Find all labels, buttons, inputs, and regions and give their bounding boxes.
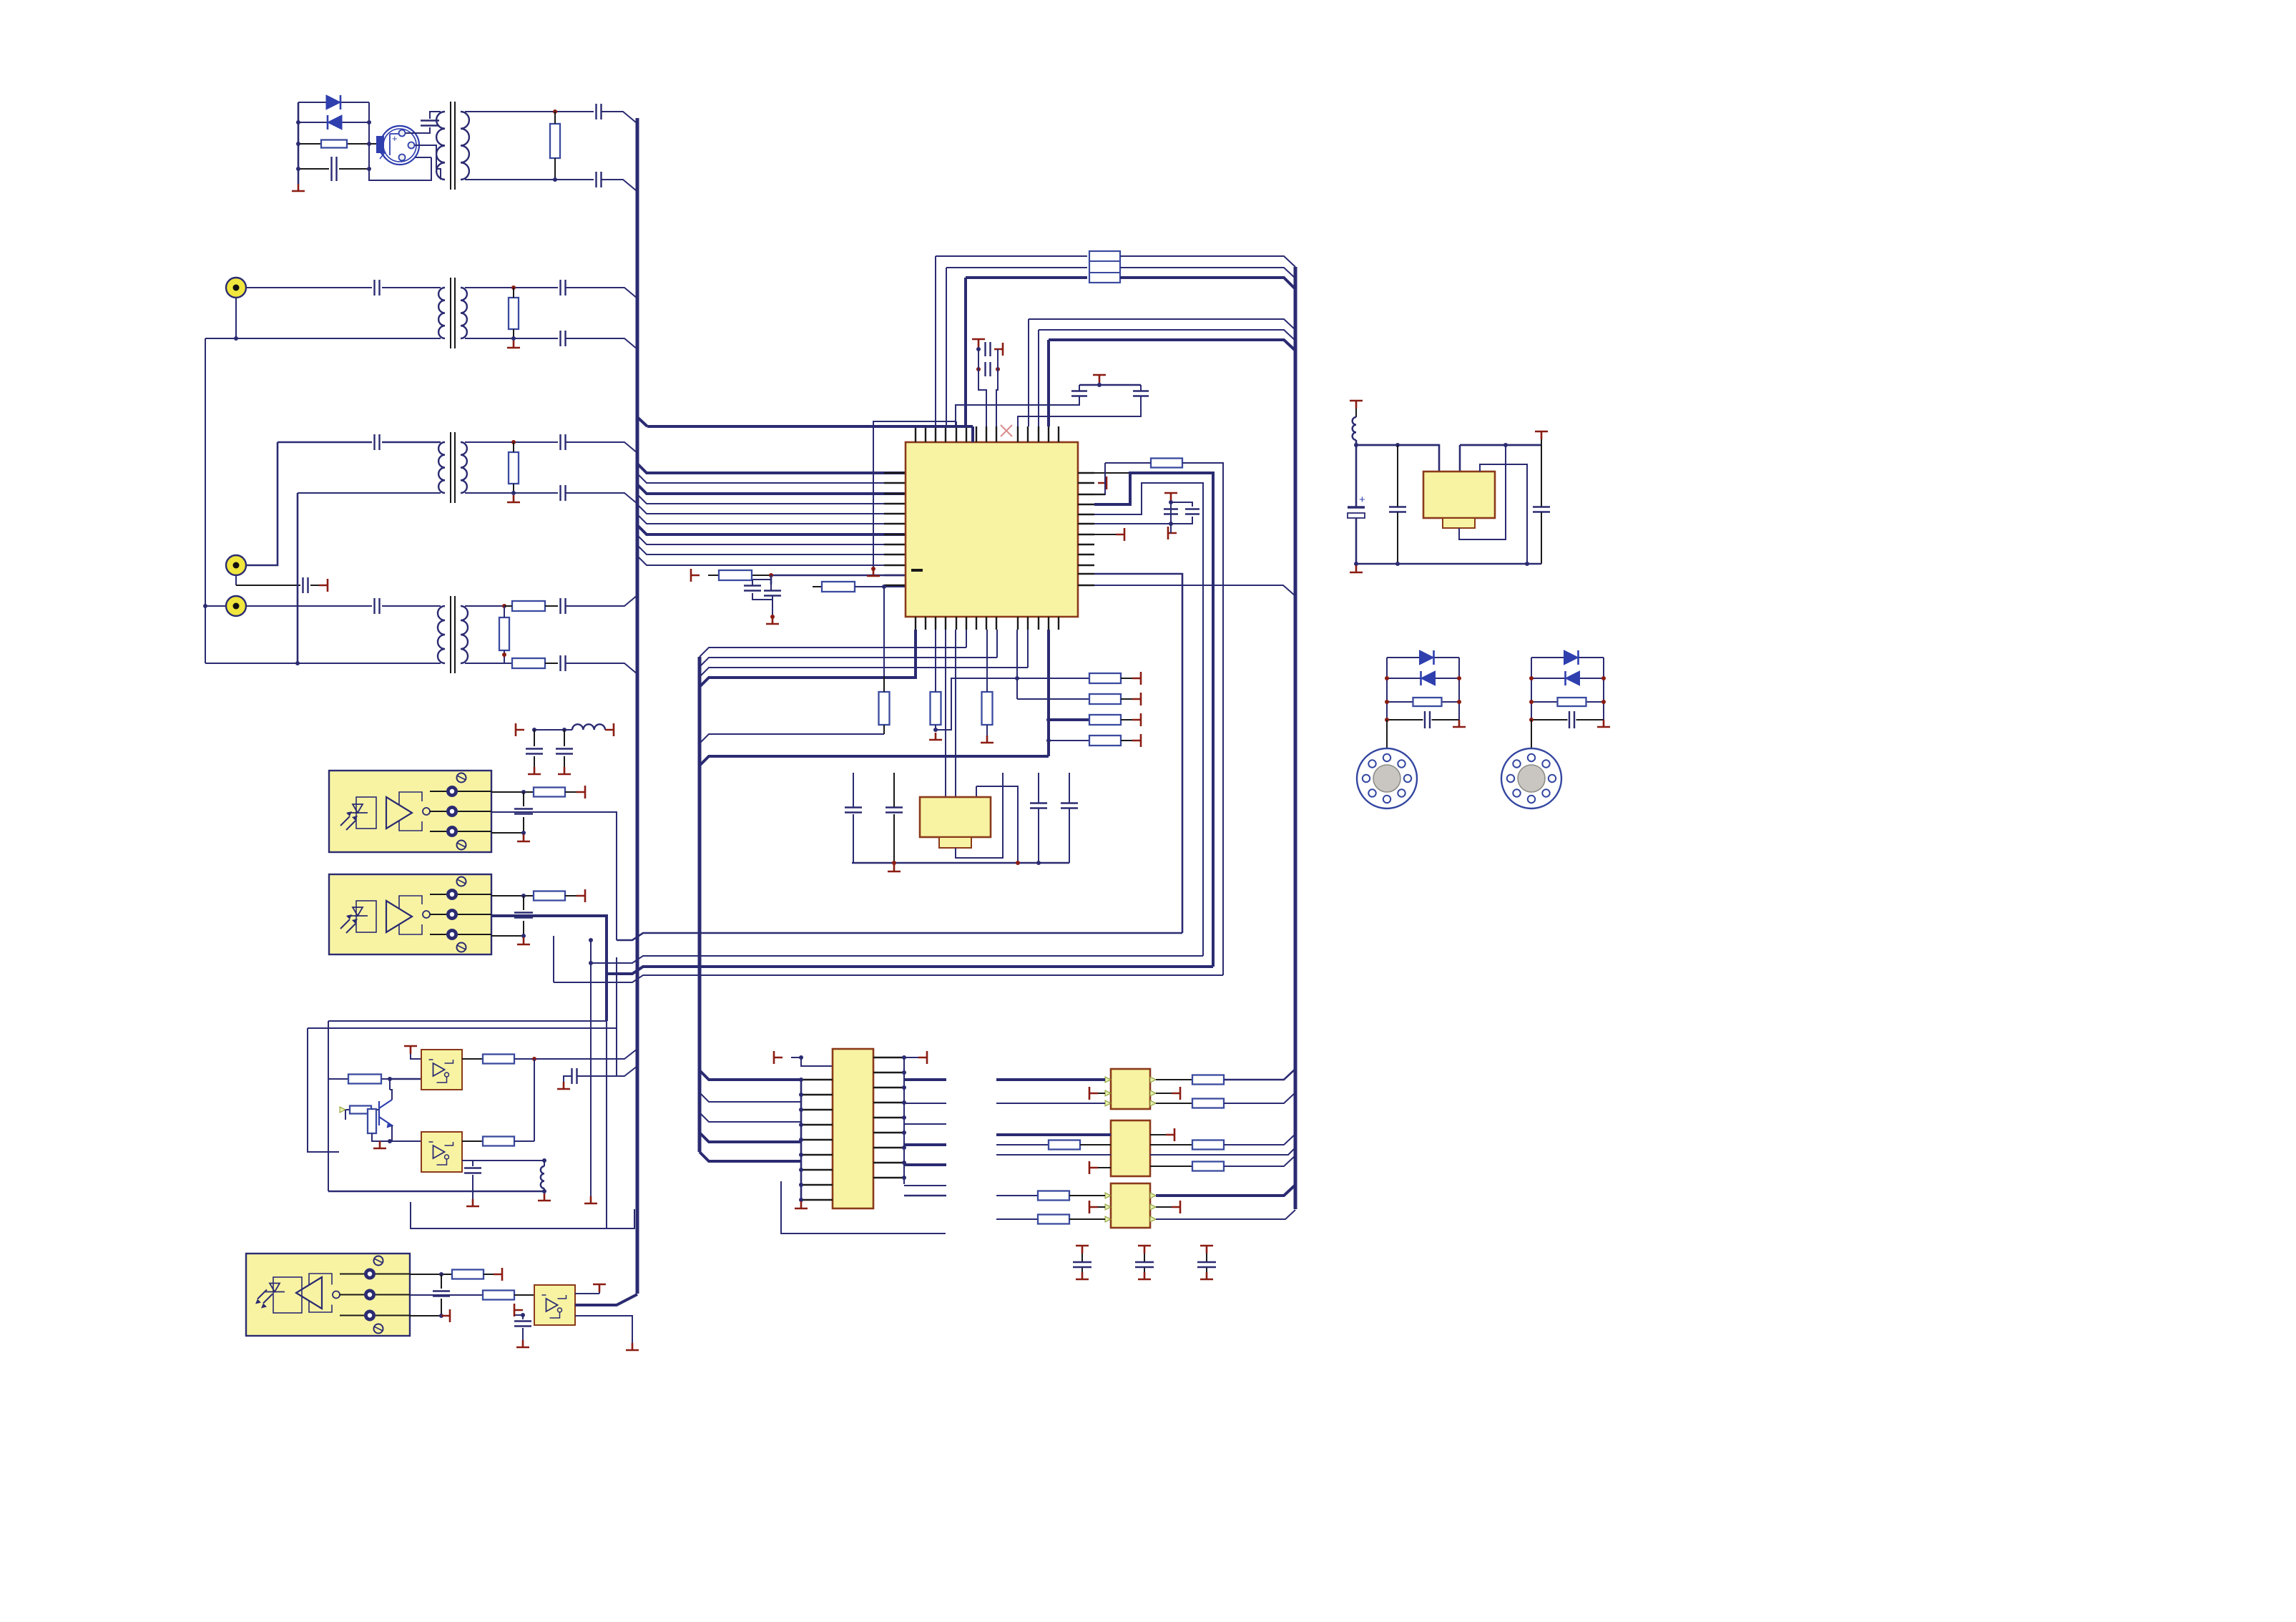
wire mid row 6 bbox=[1049, 340, 1295, 351]
wire top link bbox=[791, 1057, 833, 1066]
wire R11 wires bbox=[1105, 463, 1223, 975]
wire XLR left rail bbox=[298, 102, 300, 184]
node A3 bbox=[296, 167, 300, 171]
wire left drop rail bbox=[205, 338, 206, 663]
wire connector stem 2 bbox=[1531, 720, 1532, 748]
resistor R9 bbox=[822, 582, 855, 592]
wire bus row 704 bbox=[637, 494, 906, 504]
wire bus2 row 1026 bbox=[700, 734, 884, 743]
wire C31 right bbox=[577, 957, 617, 1076]
node M1 bbox=[439, 1272, 443, 1276]
power flag VT2 bbox=[918, 1051, 927, 1064]
node T1a bbox=[553, 109, 557, 114]
wire pin drop 1422 bbox=[1016, 630, 1018, 699]
ground GND5 bbox=[867, 569, 880, 576]
wire U8 input caps bbox=[514, 1315, 523, 1340]
wire vg stub bbox=[411, 1054, 421, 1059]
wire U9 left rail bbox=[800, 1080, 803, 1199]
capacitor C40 bbox=[1533, 507, 1550, 512]
pin marker bbox=[1105, 1193, 1111, 1198]
wire cap frame bbox=[752, 575, 772, 617]
capacitor C30 bbox=[514, 913, 533, 918]
wire RCA2 stem bbox=[235, 575, 237, 585]
wire R9 to IC bbox=[855, 586, 906, 587]
power flag VDD1 bbox=[691, 569, 700, 582]
wire mid row 5 vertical bbox=[1038, 330, 1039, 426]
ground GND6 bbox=[929, 733, 942, 740]
wire Q1 collector bbox=[390, 1079, 392, 1100]
wire res row 977 bbox=[1017, 698, 1089, 700]
node K4 bbox=[542, 1158, 546, 1163]
node B8 bbox=[502, 604, 506, 608]
node C2 bbox=[770, 615, 775, 619]
wire row D bbox=[554, 975, 1223, 982]
resistor R27 bbox=[1192, 1075, 1224, 1085]
wire C31 left gnd bbox=[564, 1076, 571, 1082]
resistor R25 bbox=[452, 1270, 484, 1279]
wire U4 cap drop bbox=[523, 896, 524, 936]
wire U6 out bbox=[462, 1140, 483, 1142]
wire U10 out3 bbox=[1156, 1103, 1192, 1104]
resistor R28 bbox=[1192, 1099, 1224, 1108]
wire R28 to bus bbox=[1224, 1093, 1295, 1103]
capacitor C34 bbox=[514, 1321, 531, 1327]
diode D4 bbox=[1421, 671, 1436, 685]
wire xtal link bbox=[1017, 416, 1019, 426]
connector J2 RCA bbox=[226, 278, 246, 298]
wire IC bottom pin stubs bbox=[915, 617, 916, 630]
capacitor C11 bbox=[561, 434, 566, 450]
pin marker bbox=[1150, 1077, 1156, 1083]
node H1 bbox=[933, 728, 938, 732]
capacitor C5 bbox=[375, 280, 380, 295]
wire R26 to U8 bbox=[514, 1294, 534, 1296]
node R0a bbox=[1385, 676, 1389, 680]
line driver U12 bbox=[1111, 1183, 1150, 1228]
transistor Q1 bbox=[379, 1100, 392, 1127]
capacitor C24 bbox=[885, 808, 903, 813]
wire branch1 row3 bbox=[1387, 701, 1459, 703]
node H3 bbox=[1046, 718, 1051, 722]
wire U4 out1 bbox=[491, 895, 534, 897]
ground GNDP3 bbox=[1200, 1272, 1213, 1279]
power flag VCC5 bbox=[484, 1274, 494, 1275]
wire R10 stubs bbox=[883, 676, 885, 734]
wire U9 out rows bbox=[904, 1078, 946, 1081]
power flag VDD3 bbox=[994, 343, 1003, 356]
power flag VR2 bbox=[1535, 431, 1548, 439]
ground GND8 bbox=[888, 864, 901, 871]
ground GND14 bbox=[373, 1141, 386, 1148]
optocoupler U7 bbox=[246, 1254, 410, 1336]
wire U9 left pins bbox=[801, 1079, 833, 1080]
capacitor C16 bbox=[764, 591, 781, 596]
wire pin 732 row bbox=[1094, 523, 1171, 524]
wire T1 secondary bottom bbox=[465, 179, 594, 180]
wire U4 out2 signal thick bbox=[491, 916, 607, 1021]
wire crystal left leg bbox=[956, 385, 1079, 426]
node T1b bbox=[553, 177, 557, 182]
wire R8 to IC bbox=[771, 575, 906, 577]
node I3 bbox=[1016, 861, 1020, 865]
wire pin drop 1466 thick bbox=[1047, 630, 1050, 756]
line driver U11 bbox=[1111, 1120, 1150, 1176]
power flag VCC1 bbox=[516, 723, 524, 736]
wire branch1 row4 bbox=[1387, 719, 1459, 720]
node E3 bbox=[1097, 383, 1102, 387]
ground GND1 bbox=[292, 184, 305, 191]
node K3 bbox=[388, 1139, 392, 1143]
wire top row 3 bbox=[966, 276, 1087, 279]
resistor R13 bbox=[982, 692, 993, 725]
power flag VDD2 bbox=[972, 339, 985, 347]
wire row 1595 bbox=[390, 1140, 421, 1142]
wire base drop bbox=[345, 1110, 346, 1120]
power flag VB3 bbox=[1089, 1161, 1098, 1174]
power flag VP2 bbox=[1138, 1246, 1151, 1254]
node G1 bbox=[1169, 500, 1173, 504]
wire pin 818 long row bbox=[1094, 585, 1295, 596]
wire res row 948 bbox=[966, 678, 1089, 679]
wire reg bottom rail bbox=[852, 862, 1069, 864]
node K1 bbox=[388, 1077, 392, 1081]
wire T2 sec bottom bbox=[465, 338, 558, 339]
transformer T4 bbox=[451, 596, 455, 673]
resistor R21 bbox=[483, 1055, 514, 1064]
wire main bus bbox=[636, 118, 639, 1294]
wire U11 out3 row bbox=[1150, 1148, 1295, 1155]
ground GND19 bbox=[795, 1201, 808, 1208]
node X2 bbox=[589, 961, 593, 965]
wire pin 747 stub bbox=[1094, 534, 1116, 535]
resistor R1 bbox=[321, 140, 347, 148]
capacitor C21 bbox=[1164, 509, 1178, 514]
wire top row 1 vertical bbox=[935, 256, 936, 426]
electrolytic capacitor C38 bbox=[1348, 506, 1365, 508]
wire pin 691 resistor loop bbox=[1094, 463, 1105, 494]
capacitor C6 bbox=[561, 280, 566, 295]
wire row 589 gnd loop bbox=[873, 421, 956, 569]
pin marker bbox=[1105, 1077, 1111, 1083]
pin marker bbox=[1105, 1090, 1111, 1096]
wire bus row 675 bbox=[637, 474, 906, 483]
wire row 818 left stub bbox=[813, 586, 822, 587]
resistor R20 bbox=[348, 1075, 381, 1084]
wire bus2 fan to U9 bbox=[700, 1070, 801, 1080]
capacitor C22 bbox=[1185, 509, 1199, 514]
capacitor C27 bbox=[526, 749, 543, 754]
wire bus2 row 1057 thick bbox=[700, 756, 1049, 766]
wire U7 cap drop bbox=[441, 1274, 442, 1316]
connector J1 XLR bbox=[381, 126, 419, 165]
wire pin 661 row bbox=[1094, 472, 1130, 474]
wire IC right pin stubs bbox=[1078, 472, 1094, 474]
wire U12 in3 resistor bbox=[996, 1218, 1038, 1220]
node G2 bbox=[1169, 522, 1173, 526]
wire top row 1 right bbox=[1120, 256, 1295, 267]
capacitor C18 bbox=[986, 362, 991, 376]
diode D5 bbox=[1564, 650, 1579, 665]
capacitor C12 bbox=[561, 485, 566, 501]
wire U12 in1 resistor bbox=[996, 1195, 1038, 1196]
svg-text:+: + bbox=[392, 133, 398, 144]
wire C14 to bus bbox=[566, 663, 637, 674]
wire Q1 base row bbox=[345, 1109, 379, 1110]
ground GND7 bbox=[981, 736, 994, 743]
ground GND10 bbox=[558, 767, 571, 774]
pin marker bbox=[1150, 1204, 1156, 1210]
node R1c bbox=[1529, 718, 1534, 722]
wire U3 out1 bbox=[491, 791, 534, 793]
wire T1 secondary top bbox=[465, 111, 594, 112]
wire bus row 718 bbox=[637, 504, 906, 514]
logic gate U5 bbox=[421, 1050, 462, 1090]
node H2 bbox=[1015, 676, 1019, 680]
power flag VD4 bbox=[1121, 740, 1132, 741]
wire T4 primary bottom bbox=[205, 663, 441, 664]
capacitor C41 bbox=[1425, 711, 1430, 728]
wire U3 cap drop bbox=[523, 792, 524, 833]
wire R20 to box bbox=[390, 1078, 421, 1080]
wire top row 1 bbox=[936, 255, 1087, 257]
wire XLR pin2 to transformer bbox=[415, 145, 436, 169]
node E1 bbox=[976, 347, 981, 351]
inductor L2 bbox=[541, 1166, 544, 1188]
resistor R26 bbox=[483, 1291, 514, 1300]
node C1 bbox=[769, 573, 773, 577]
wire C23 wires bbox=[853, 773, 854, 863]
wire T3 top row bbox=[278, 441, 441, 444]
node B4 bbox=[203, 604, 207, 608]
wire bus row 661 bbox=[637, 464, 906, 473]
wire mid row 4 vertical bbox=[1028, 319, 1029, 426]
node J5 bbox=[521, 934, 526, 938]
capacitor C1 bbox=[332, 157, 337, 181]
resistor R3 bbox=[509, 298, 519, 329]
wire RCA1 stem bbox=[235, 298, 237, 338]
power flag VB6 bbox=[1156, 1206, 1172, 1208]
wire drop 848 bbox=[606, 1021, 607, 1228]
power flag VD1 bbox=[1121, 678, 1132, 679]
node B1 bbox=[234, 336, 238, 341]
wire diode row 1 bbox=[298, 102, 369, 103]
wire U10 out1 bbox=[1156, 1079, 1192, 1080]
wire T3 sec top bbox=[465, 441, 558, 443]
wire U7 out2 bbox=[410, 1294, 483, 1296]
node K2 bbox=[532, 1057, 536, 1061]
capacitor C15 bbox=[744, 586, 761, 591]
node N1 bbox=[799, 1055, 803, 1060]
resistor R7 bbox=[512, 658, 545, 668]
ground GND18 bbox=[626, 1343, 639, 1350]
ground GND22 bbox=[1597, 720, 1610, 727]
wire pin 719 loop bbox=[1094, 483, 1203, 956]
ground GND21 bbox=[1453, 720, 1466, 727]
wire R23 link bbox=[372, 1109, 380, 1141]
ground GND12 bbox=[517, 937, 530, 944]
wire capacitor row bbox=[298, 168, 369, 170]
power flag VCC2 bbox=[605, 723, 614, 736]
power flag VD2 bbox=[1121, 698, 1132, 700]
regulator tab U13 bbox=[1443, 518, 1475, 528]
capacitor C37 bbox=[1206, 1254, 1207, 1276]
wire row 1508 bbox=[328, 1078, 390, 1080]
wire RCA1 row bbox=[246, 287, 441, 288]
wire row 919 drop bbox=[996, 630, 998, 658]
resistor R14 bbox=[1089, 673, 1121, 683]
wire row B bbox=[591, 956, 1203, 963]
resistor R5 bbox=[512, 601, 545, 611]
capacitor C39 bbox=[1389, 507, 1406, 512]
wire U7 out3 bbox=[410, 1315, 441, 1316]
wire drop 747 bbox=[534, 1059, 535, 1141]
wire RCA3 link to rail bbox=[205, 605, 226, 607]
wire rail 459 bbox=[328, 1021, 329, 1191]
node K5 bbox=[542, 1189, 546, 1193]
power flag VDD4 bbox=[1093, 375, 1106, 383]
wire thick feed 596 bbox=[647, 425, 973, 428]
wire branch2 row4 bbox=[1531, 719, 1604, 720]
ground GND16 bbox=[538, 1193, 551, 1201]
wire C13 to bus bbox=[566, 595, 637, 606]
inductor L3 bbox=[1353, 417, 1356, 440]
optocoupler U4 bbox=[329, 874, 491, 954]
wire mid drop rail bbox=[297, 493, 299, 663]
wire U9 right rail bbox=[903, 1057, 905, 1184]
wire U9 bottom frame bbox=[781, 1181, 946, 1233]
wire branch2 row3 bbox=[1531, 701, 1604, 703]
line driver U10 bbox=[1111, 1069, 1150, 1109]
wire T3 bottom row bbox=[298, 492, 441, 494]
wire C11 to bus bbox=[566, 442, 637, 453]
ground GND2 bbox=[507, 341, 520, 348]
wire VR1 stem bbox=[1355, 409, 1357, 417]
wire IC left pin stubs bbox=[884, 472, 906, 474]
wire branch2 frame bbox=[1531, 658, 1604, 720]
resistor R24 bbox=[483, 1137, 514, 1146]
connector J3 RCA bbox=[226, 555, 246, 575]
wire C6 to bus bbox=[566, 288, 637, 298]
ground GNDP2 bbox=[1138, 1272, 1151, 1279]
resistor R31 bbox=[1038, 1191, 1069, 1201]
power flag VB4 bbox=[1150, 1134, 1166, 1135]
capacitor C7 bbox=[561, 331, 566, 346]
optocoupler U3 bbox=[329, 771, 491, 852]
diode D2 bbox=[328, 115, 342, 130]
node J2 bbox=[521, 790, 526, 794]
wire R21 to bus bbox=[514, 1049, 637, 1059]
wire row A west bbox=[617, 933, 1182, 940]
wire branch1 row2 bbox=[1387, 678, 1459, 679]
wire pin 802 thick loop bbox=[1094, 574, 1182, 933]
ground GNDP1 bbox=[1076, 1272, 1089, 1279]
wire C32 stem bbox=[472, 1161, 474, 1199]
power flag VP3 bbox=[1200, 1246, 1213, 1254]
wire mid row 6 vertical bbox=[1047, 340, 1050, 426]
wire bottom row 1665 bbox=[328, 1191, 544, 1193]
pin marker bbox=[1105, 1204, 1111, 1210]
wire U10 in1 thick bbox=[996, 1078, 1105, 1081]
capacitor C29 bbox=[514, 809, 533, 814]
power flag VDD5 bbox=[1098, 477, 1107, 489]
wire bus row 747 bbox=[637, 525, 906, 534]
wire cap bottoms bbox=[1171, 517, 1192, 524]
wire T1 primary bottom link bbox=[436, 169, 441, 180]
pin marker bbox=[1105, 1216, 1111, 1222]
wire row 933 drop bbox=[1027, 630, 1029, 668]
wire top row 2 right bbox=[1120, 268, 1295, 278]
pin marker bbox=[1150, 1193, 1156, 1198]
wire T4 sec bottom bbox=[465, 663, 512, 664]
power flag VT1 bbox=[774, 1051, 782, 1064]
wire vdd stub bbox=[978, 347, 979, 349]
node A1 bbox=[296, 120, 300, 124]
wire resistor row 804 bbox=[708, 575, 771, 576]
wire U9 right pins bbox=[873, 1057, 904, 1058]
wire drop 826 bbox=[590, 940, 592, 1196]
capacitor C25 bbox=[1030, 803, 1047, 808]
wire tab loop bbox=[956, 773, 1003, 858]
node J4 bbox=[521, 894, 526, 898]
power flag VCC4 bbox=[565, 895, 577, 897]
capacitor C31 bbox=[572, 1068, 577, 1084]
ground GND13 bbox=[557, 1082, 570, 1089]
ground GND15 bbox=[466, 1199, 479, 1206]
wire bus2 row 947 thick bbox=[700, 630, 916, 687]
wire bus row 761 bbox=[637, 535, 906, 544]
wire left rail 430 bbox=[308, 1028, 339, 1152]
power flag AGND1 bbox=[319, 579, 328, 592]
wire U7 out1 bbox=[410, 1274, 452, 1275]
wire U3 out3 bbox=[491, 832, 524, 834]
wire loop 1717 bbox=[411, 1202, 634, 1228]
node Q2 bbox=[1354, 562, 1358, 566]
logic gate U8 bbox=[534, 1285, 575, 1325]
svg-text:+: + bbox=[1359, 494, 1365, 506]
wire C38 stems bbox=[1355, 445, 1358, 564]
wire R29 to bus bbox=[1224, 1134, 1295, 1145]
node B3 bbox=[511, 336, 516, 341]
capacitor C32 bbox=[464, 1168, 481, 1173]
node J3 bbox=[521, 831, 526, 835]
wire resistor row bbox=[298, 143, 378, 145]
resistor R22 bbox=[350, 1106, 371, 1114]
pin marker bbox=[1150, 1090, 1156, 1096]
diode D6 bbox=[1566, 671, 1580, 685]
node A2 bbox=[296, 142, 300, 146]
wire tab loop right bbox=[1459, 445, 1506, 539]
capacitor C42 bbox=[1569, 711, 1574, 728]
resistor R17 bbox=[1089, 736, 1121, 746]
capacitor C3 bbox=[597, 104, 602, 119]
logic gate U6 bbox=[421, 1132, 462, 1172]
wire C39 stems bbox=[1397, 445, 1398, 564]
capacitor C26 bbox=[1061, 803, 1078, 808]
wire bus row 732 bbox=[637, 514, 906, 524]
power flag AGND2 bbox=[441, 1309, 450, 1322]
wire U11 in1 thick bbox=[996, 1133, 1111, 1136]
capacitor C23 bbox=[845, 808, 862, 813]
node R0c bbox=[1385, 718, 1389, 722]
ground GND3 bbox=[507, 495, 520, 502]
wire connector stem 1 bbox=[1386, 720, 1388, 748]
resistor R19 bbox=[534, 891, 565, 901]
resistor R11 bbox=[1151, 459, 1182, 468]
resistor R4 bbox=[509, 452, 519, 484]
wire C2 to T1 top bbox=[430, 112, 441, 119]
transformer T1 bbox=[451, 102, 455, 190]
wire C40 stems bbox=[1541, 445, 1542, 564]
